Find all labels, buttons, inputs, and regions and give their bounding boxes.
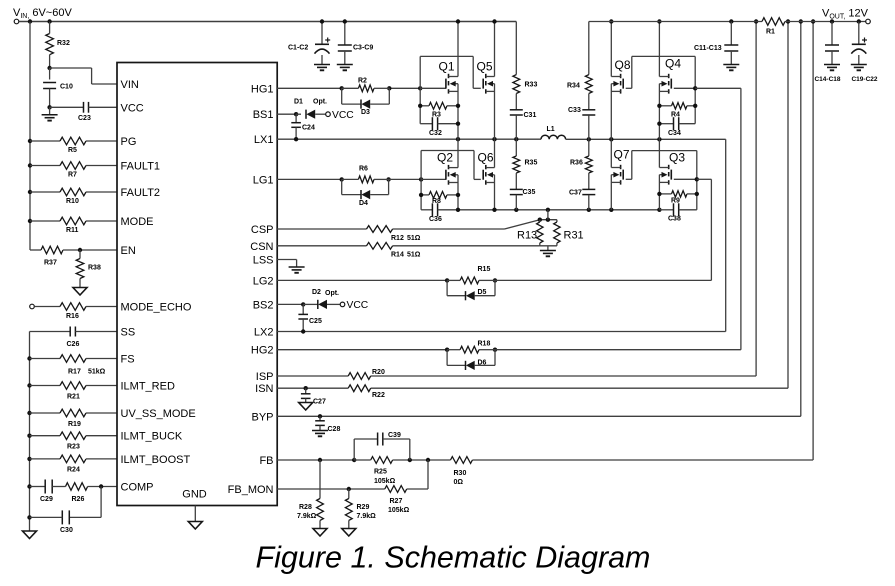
- wire common source sense line: [456, 208, 662, 212]
- svg-text:105kΩ: 105kΩ: [388, 507, 410, 514]
- svg-text:Q7: Q7: [614, 148, 630, 162]
- wire Q7 Q3 gate bus: [626, 151, 712, 210]
- svg-text:C34: C34: [668, 130, 681, 137]
- svg-text:C1-C2: C1-C2: [288, 45, 308, 52]
- svg-text:ILMT_BOOST: ILMT_BOOST: [121, 454, 191, 466]
- transistor Q2: [437, 151, 458, 185]
- svg-text:D6: D6: [478, 360, 487, 367]
- wire Q3 source to sense line: [658, 175, 660, 210]
- svg-text:R11: R11: [66, 227, 79, 234]
- svg-text:R24: R24: [67, 467, 80, 474]
- svg-text:VCC: VCC: [121, 102, 144, 114]
- wire FB riser: [811, 19, 815, 460]
- resistor R9: [657, 191, 699, 205]
- svg-text:R25: R25: [374, 469, 387, 476]
- capacitor C25: [298, 304, 322, 331]
- ground under R13 R31: [540, 246, 556, 256]
- svg-text:Q3: Q3: [669, 151, 685, 165]
- svg-text:Q1: Q1: [439, 60, 455, 74]
- node VOUT terminal: [822, 8, 870, 24]
- svg-text:R19: R19: [68, 421, 81, 428]
- svg-text:FAULT1: FAULT1: [121, 161, 161, 173]
- resistor R28 7.9k: [297, 460, 323, 529]
- capacitor C30: [30, 487, 102, 535]
- svg-text:LX2: LX2: [254, 327, 274, 339]
- svg-text:R37: R37: [44, 260, 57, 267]
- wire LX1: [277, 137, 541, 141]
- wire ISP: [277, 375, 756, 377]
- resistor R20: [348, 369, 385, 379]
- resistor R11: [30, 217, 117, 234]
- capacitor C36: [421, 203, 458, 223]
- svg-text:C3-C9: C3-C9: [353, 45, 373, 52]
- capacitor C29: [30, 480, 53, 504]
- svg-text:D3: D3: [361, 109, 370, 116]
- svg-text:R22: R22: [372, 392, 385, 399]
- ground under R29: [342, 529, 356, 537]
- svg-text:C19-C22: C19-C22: [851, 76, 877, 83]
- wire LSS to ground: [277, 260, 305, 273]
- resistor R4: [657, 103, 697, 119]
- svg-text:VCC: VCC: [332, 110, 354, 121]
- capacitor C32: [420, 117, 460, 137]
- wire VOUT rail: [589, 19, 866, 23]
- node VIN input terminal: [13, 7, 72, 24]
- svg-text:R17: R17: [68, 369, 81, 376]
- wire R32 to VIN pin: [47, 66, 117, 84]
- node VCC bootstrap2 terminal: [340, 300, 369, 311]
- resistor R36: [570, 139, 592, 173]
- wire VIN rail drop to snubber: [515, 22, 517, 75]
- svg-text:C29: C29: [40, 496, 53, 503]
- svg-text:C23: C23: [78, 115, 91, 122]
- wire left bus2: [27, 332, 31, 532]
- svg-text:C37: C37: [569, 190, 582, 197]
- svg-text:LX1: LX1: [254, 134, 274, 146]
- svg-text:R26: R26: [72, 496, 85, 503]
- svg-text:0Ω: 0Ω: [454, 479, 464, 486]
- resistor R18: [447, 341, 495, 354]
- diode D3: [342, 88, 390, 116]
- transistor Q1: [439, 60, 459, 94]
- wire CSP diagonal to sense resistor: [505, 220, 540, 229]
- svg-text:Q5: Q5: [477, 60, 493, 74]
- resistor R19: [30, 409, 118, 428]
- svg-text:C38: C38: [668, 216, 681, 223]
- svg-text:C28: C28: [328, 426, 341, 433]
- wire HG1: [277, 86, 422, 90]
- svg-text:HG1: HG1: [251, 83, 274, 95]
- resistor R29 7.9k: [345, 489, 376, 529]
- svg-text:R8: R8: [432, 198, 441, 205]
- resistor R12 51ohm: [367, 226, 421, 242]
- svg-text:C27: C27: [313, 399, 326, 406]
- svg-text:MODE_ECHO: MODE_ECHO: [121, 302, 192, 314]
- capacitor C35: [510, 173, 536, 210]
- resistor R37: [30, 246, 117, 266]
- svg-text:D2: D2: [312, 289, 321, 296]
- svg-text:MODE: MODE: [121, 216, 154, 228]
- caption Figure 1. Schematic Diagram: [256, 541, 651, 575]
- svg-text:ILMT_BUCK: ILMT_BUCK: [121, 431, 183, 443]
- wire Q5 drain to rail: [492, 19, 496, 76]
- wire ISP riser: [754, 19, 758, 376]
- wire ISN riser: [786, 19, 790, 388]
- resistor R7: [30, 162, 117, 179]
- capacitor C33: [568, 94, 595, 140]
- svg-text:LSS: LSS: [253, 254, 274, 266]
- svg-text:7.9kΩ: 7.9kΩ: [357, 513, 377, 520]
- svg-text:R21: R21: [67, 394, 80, 401]
- svg-text:C11-C13: C11-C13: [694, 45, 722, 52]
- svg-text:R28: R28: [299, 504, 312, 511]
- wire CSP: [277, 228, 505, 230]
- svg-text:C14-C18: C14-C18: [814, 76, 840, 83]
- resistor R8: [419, 192, 460, 206]
- svg-text:C25: C25: [309, 318, 322, 325]
- resistor R35: [513, 139, 538, 173]
- wire FB_MON: [277, 460, 428, 491]
- capacitor C39: [354, 432, 410, 460]
- wire Q2 drain to LX1: [457, 139, 459, 167]
- svg-text:R7: R7: [68, 172, 77, 179]
- svg-text:C36: C36: [429, 216, 442, 223]
- wire Q7 source to sense line: [610, 175, 612, 210]
- wire Q1 source to LX1: [457, 84, 459, 140]
- resistor R6: [342, 166, 389, 183]
- capacitor C1-C2: [288, 19, 330, 70]
- capacitor C11-C13: [694, 22, 739, 71]
- resistor R10: [30, 188, 117, 205]
- ground GND pin: [188, 506, 202, 530]
- svg-text:CSP: CSP: [251, 224, 274, 236]
- svg-text:C31: C31: [524, 112, 537, 119]
- svg-text:R36: R36: [570, 160, 583, 167]
- inductor L1: [541, 126, 566, 139]
- op-amp U1 controller IC block: [117, 63, 277, 506]
- capacitor C34: [657, 117, 695, 137]
- wire Q2 Q6 gate bus: [421, 151, 481, 210]
- svg-text:Q2: Q2: [437, 151, 453, 165]
- svg-text:CSN: CSN: [250, 241, 273, 253]
- resistor R2: [342, 78, 390, 92]
- svg-text:R18: R18: [478, 341, 491, 348]
- svg-text:R30: R30: [454, 470, 467, 477]
- svg-text:R5: R5: [68, 147, 77, 154]
- svg-text:COMP: COMP: [121, 482, 154, 494]
- wire BYP: [277, 414, 801, 418]
- svg-text:R15: R15: [478, 266, 491, 273]
- svg-text:Q4: Q4: [665, 57, 681, 71]
- svg-text:105kΩ: 105kΩ: [374, 478, 396, 485]
- svg-text:R38: R38: [88, 265, 101, 272]
- diode D4: [342, 179, 389, 207]
- svg-text:Figure 1. Schematic Diagram: Figure 1. Schematic Diagram: [256, 541, 651, 575]
- resistor R14 51ohm: [367, 242, 421, 258]
- resistor R31: [540, 220, 584, 246]
- svg-text:PG: PG: [121, 136, 137, 148]
- svg-text:C33: C33: [568, 107, 581, 114]
- resistor R26: [52, 483, 117, 503]
- resistor R15: [447, 266, 495, 284]
- wire LG2 riser: [710, 179, 712, 280]
- wire LX2 riser: [725, 139, 727, 331]
- wire VOUT rail drop to snubber: [588, 22, 590, 75]
- wire Q6 source: [494, 175, 496, 210]
- capacitor C27: [301, 388, 326, 405]
- capacitor C38: [659, 203, 696, 222]
- svg-text:GND: GND: [182, 489, 207, 501]
- svg-text:ILMT_RED: ILMT_RED: [121, 381, 175, 393]
- svg-text:EN: EN: [121, 245, 136, 257]
- resistor R38: [76, 250, 101, 288]
- svg-text:ISP: ISP: [256, 371, 274, 383]
- resistor R17: [30, 355, 118, 376]
- svg-text:BS2: BS2: [253, 299, 274, 311]
- svg-text:R35: R35: [525, 160, 538, 167]
- diode D2 Opt.: [312, 289, 340, 309]
- wire BS2: [277, 302, 318, 306]
- wire Q4 source to LX2 node: [658, 84, 660, 140]
- ground under C27: [299, 403, 313, 411]
- svg-text:HG2: HG2: [251, 345, 274, 357]
- svg-text:R27: R27: [390, 498, 403, 505]
- node MODE_ECHO terminal: [30, 304, 35, 309]
- wire Q1 Q5 gate bus: [420, 56, 481, 123]
- wire FB: [277, 458, 813, 462]
- resistor R13: [517, 210, 557, 246]
- capacitor C23: [50, 102, 117, 122]
- svg-text:51Ω: 51Ω: [407, 235, 421, 242]
- svg-text:R2: R2: [358, 78, 367, 85]
- svg-text:51kΩ: 51kΩ: [88, 369, 106, 376]
- svg-text:51Ω: 51Ω: [407, 252, 421, 259]
- wire Q7 drain to LX2 node: [610, 139, 612, 167]
- svg-text:FB: FB: [259, 455, 273, 467]
- resistor R1: [762, 18, 785, 36]
- svg-text:Opt.: Opt.: [325, 290, 339, 297]
- svg-text:R1: R1: [766, 29, 775, 36]
- svg-text:R12: R12: [391, 235, 404, 242]
- svg-text:BS1: BS1: [253, 109, 274, 121]
- transistor Q8: [611, 58, 631, 94]
- wire HG2: [277, 348, 741, 352]
- svg-text:LG1: LG1: [253, 174, 274, 186]
- svg-text:LG2: LG2: [253, 275, 274, 287]
- transistor Q6: [478, 151, 495, 185]
- svg-text:Q8: Q8: [615, 58, 631, 72]
- wire BS1: [277, 112, 301, 116]
- capacitor C24: [291, 114, 315, 139]
- resistor R21: [30, 382, 118, 401]
- resistor R25 105k: [354, 457, 395, 485]
- wire HG2 riser: [740, 88, 742, 349]
- svg-text:C26: C26: [67, 341, 80, 348]
- wire Q3 drain to LX2 node: [658, 139, 660, 167]
- wire ISN: [277, 386, 788, 390]
- wire Q6 drain to LX1: [494, 139, 496, 167]
- ground under C10: [42, 105, 58, 120]
- ground under R38: [73, 288, 87, 296]
- diode D1 Opt.: [294, 99, 327, 119]
- svg-text:R34: R34: [567, 83, 580, 90]
- svg-text:R23: R23: [67, 444, 80, 451]
- svg-text:D1: D1: [294, 99, 303, 106]
- wire CSN: [277, 245, 540, 247]
- capacitor C14-C18: [814, 22, 840, 84]
- transistor Q7: [611, 148, 630, 185]
- ground under bus2: [23, 531, 37, 539]
- wire Q8 drain to rail: [609, 19, 613, 76]
- svg-text:C32: C32: [429, 130, 442, 137]
- ground under C28: [312, 431, 328, 437]
- svg-text:D4: D4: [359, 200, 368, 207]
- diode D5: [447, 280, 495, 300]
- svg-text:Opt.: Opt.: [313, 99, 327, 106]
- svg-text:C10: C10: [60, 84, 73, 91]
- wire Q2 source: [457, 175, 459, 210]
- capacitor C28: [315, 416, 340, 433]
- svg-text:C30: C30: [60, 527, 73, 534]
- wire VIN rail: [19, 19, 517, 23]
- capacitor C10: [43, 68, 73, 107]
- wire Q8 Q4 gate bus: [626, 56, 741, 123]
- wire LG1: [277, 177, 423, 181]
- wire Q4 drain to rail: [657, 19, 661, 76]
- svg-text:C35: C35: [523, 189, 536, 196]
- svg-text:R20: R20: [372, 369, 385, 376]
- svg-text:R33: R33: [525, 82, 538, 89]
- svg-text:UV_SS_MODE: UV_SS_MODE: [121, 408, 196, 420]
- resistor R22: [348, 385, 385, 399]
- svg-text:R10: R10: [66, 198, 79, 205]
- transistor Q3: [659, 151, 685, 185]
- svg-text:VCC: VCC: [347, 300, 369, 311]
- node VCC bootstrap1 terminal: [326, 110, 355, 121]
- resistor R34: [567, 75, 592, 94]
- svg-text:BYP: BYP: [251, 411, 273, 423]
- resistor R27 105k: [385, 486, 410, 514]
- svg-text:R29: R29: [357, 504, 370, 511]
- svg-text:C24: C24: [302, 125, 315, 132]
- svg-text:ISN: ISN: [255, 383, 273, 395]
- wire left bus1 (VIN to EN): [28, 22, 32, 251]
- svg-text:VIN: VIN: [121, 79, 139, 91]
- svg-text:R16: R16: [66, 313, 79, 320]
- svg-text:SS: SS: [121, 327, 136, 339]
- svg-text:VOUT, 12V: VOUT, 12V: [822, 8, 869, 21]
- wire Q5 source to LX1: [494, 84, 496, 140]
- resistor R5: [30, 137, 117, 154]
- svg-text:Q6: Q6: [478, 151, 494, 165]
- wire LX2: [277, 329, 726, 333]
- transistor Q4: [659, 57, 681, 94]
- diode D6: [447, 350, 495, 370]
- capacitor C37: [569, 173, 595, 210]
- capacitor C26: [30, 327, 118, 349]
- wire LG2: [277, 278, 711, 282]
- svg-text:FAULT2: FAULT2: [121, 187, 161, 199]
- resistor R33: [513, 75, 538, 94]
- resistor R3: [418, 102, 460, 118]
- resistor R32: [46, 22, 70, 69]
- resistor R23: [30, 432, 118, 451]
- svg-text:C39: C39: [388, 432, 401, 439]
- wire Q1 drain to rail: [456, 19, 460, 76]
- capacitor C3-C9: [337, 19, 374, 70]
- svg-text:7.9kΩ: 7.9kΩ: [297, 513, 317, 520]
- svg-text:FS: FS: [121, 354, 135, 366]
- svg-text:FB_MON: FB_MON: [228, 484, 274, 496]
- transistor Q5: [477, 60, 495, 94]
- ground under R28: [313, 529, 327, 537]
- svg-text:R32: R32: [57, 40, 70, 47]
- svg-text:R13: R13: [517, 230, 537, 242]
- capacitor C31: [510, 94, 537, 140]
- wire BYP riser: [799, 19, 803, 416]
- svg-text:R6: R6: [359, 166, 368, 173]
- resistor R30 0ohm: [451, 457, 473, 486]
- resistor R16: [34, 303, 117, 320]
- wire L1 right node (LX2 net): [566, 137, 726, 141]
- capacitor C19-C22: [851, 22, 878, 84]
- svg-text:R3: R3: [432, 112, 441, 119]
- wire Q8 source to LX2 node: [610, 84, 612, 140]
- svg-text:R14: R14: [391, 252, 404, 259]
- svg-text:D5: D5: [478, 289, 487, 296]
- svg-text:L1: L1: [547, 126, 555, 133]
- resistor R24: [30, 455, 118, 473]
- svg-text:R31: R31: [564, 230, 584, 242]
